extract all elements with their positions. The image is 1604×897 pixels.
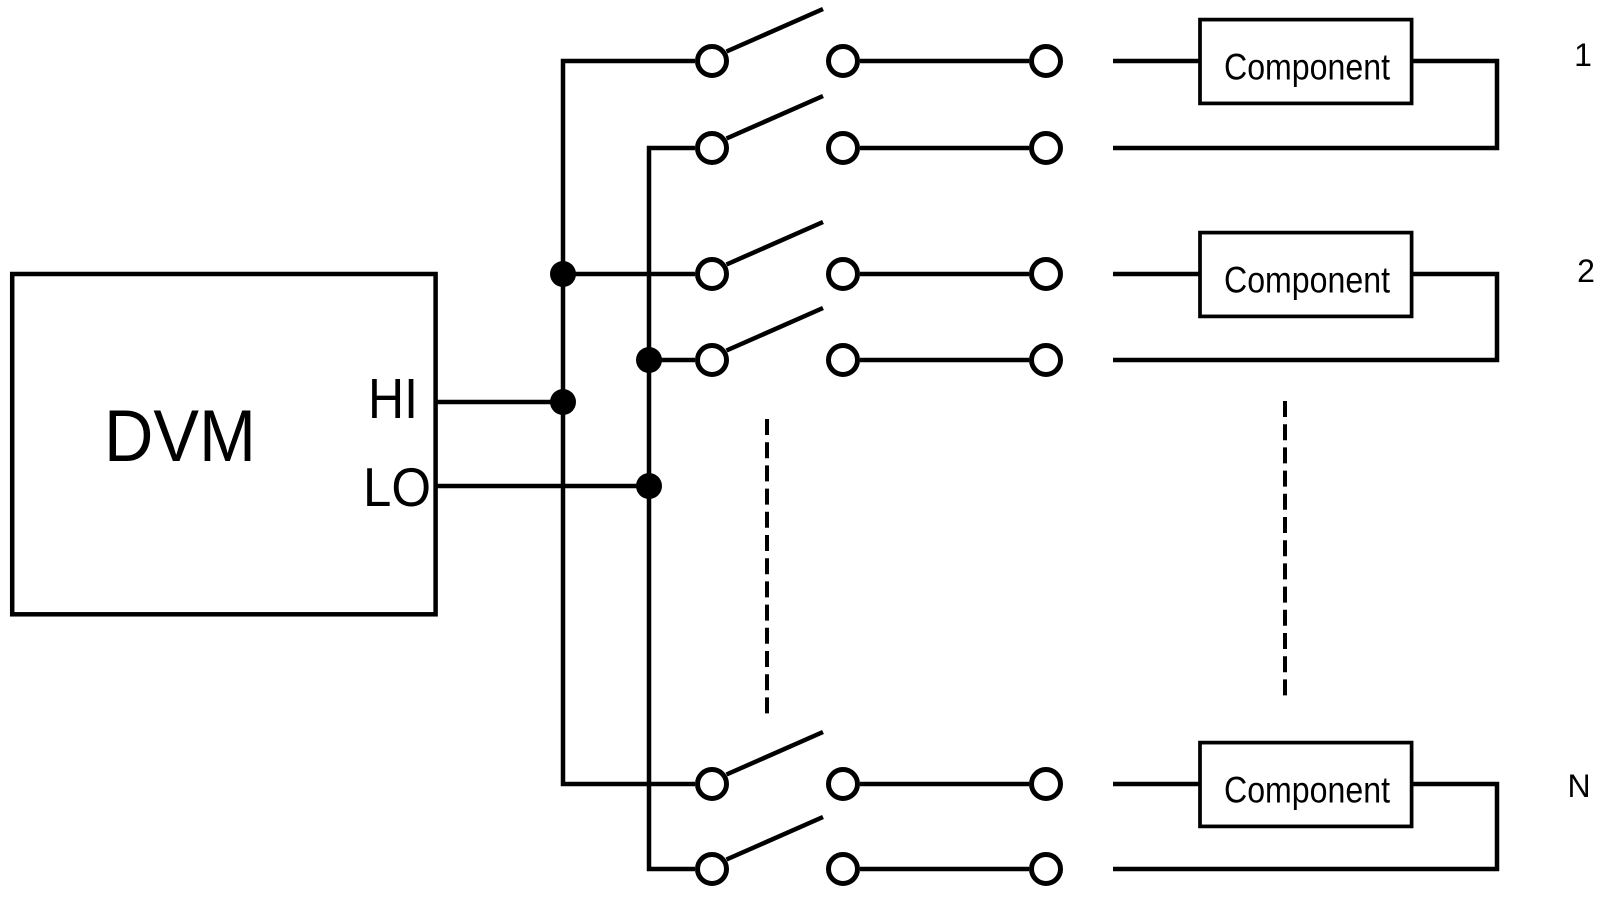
switch S1-LO lever (open) (727, 96, 824, 139)
switch SN-LO pole contact (698, 855, 727, 884)
wire to component 1 (1113, 59, 1200, 64)
wire SN-LO between contacts (860, 867, 1029, 872)
switch S2-HI lever (open) (727, 222, 824, 265)
component box 2 (1200, 233, 1412, 317)
wire DVM LO to LO bus (crosses HI bus) (436, 484, 649, 489)
LO bus vertical wire with top/bottom feed corners (649, 148, 695, 869)
svg-text:Component: Component (1224, 769, 1390, 811)
svg-text:2: 2 (1577, 253, 1595, 289)
junction dot LO bus / channel 2 LO (636, 347, 662, 373)
dashed continuation line (switch column) (765, 419, 769, 713)
terminal contact S1-HI (1032, 47, 1061, 76)
wire S2-HI between contacts (860, 272, 1029, 277)
terminal contact S2-HI (1032, 260, 1061, 289)
component box N (1200, 743, 1412, 827)
terminal contact SN-HI (1032, 770, 1061, 799)
terminal contact S1-LO (1032, 134, 1061, 163)
switch S2-LO throw contact (829, 346, 858, 375)
switch S1-HI throw contact (829, 47, 858, 76)
wire S1-LO between contacts (860, 146, 1029, 151)
switch SN-LO lever (open) (727, 817, 824, 860)
svg-text:LO: LO (363, 456, 431, 518)
wire DVM HI to HI bus (436, 400, 563, 405)
switch S2-HI throw contact (829, 260, 858, 289)
wire S2-HI feed (563, 272, 695, 277)
wire to component 2 (1113, 272, 1200, 277)
component box 1 (1200, 20, 1412, 104)
switch S1-LO throw contact (829, 134, 858, 163)
wire S1-HI between contacts (860, 59, 1029, 64)
HI bus vertical wire with top/bottom feed corners (563, 61, 695, 784)
svg-text:Component: Component (1224, 46, 1390, 88)
switch S2-LO pole contact (698, 346, 727, 375)
switch S2-LO lever (open) (727, 308, 824, 351)
wire S2-LO between contacts (860, 358, 1029, 363)
wire to component N (1113, 782, 1200, 787)
terminal contact S2-LO (1032, 346, 1061, 375)
svg-text:N: N (1567, 768, 1590, 804)
switch SN-LO throw contact (829, 855, 858, 884)
svg-text:HI: HI (368, 367, 418, 431)
wire component 2 return loop (1113, 274, 1497, 360)
junction dot HI bus / DVM HI (550, 389, 576, 415)
svg-text:Component: Component (1224, 259, 1390, 301)
wire SN-HI between contacts (860, 782, 1029, 787)
junction dot LO bus / DVM LO (636, 473, 662, 499)
svg-text:1: 1 (1574, 37, 1592, 73)
wire component N return loop (1113, 784, 1497, 869)
switch SN-HI throw contact (829, 770, 858, 799)
switch S1-HI lever (open) (727, 9, 824, 52)
switch S1-LO pole contact (698, 134, 727, 163)
junction dot HI bus / channel 2 HI (550, 261, 576, 287)
wire S2-LO feed (649, 358, 695, 363)
terminal contact SN-LO (1032, 855, 1061, 884)
switch S1-HI pole contact (698, 47, 727, 76)
switch SN-HI lever (open) (727, 732, 824, 775)
switch SN-HI pole contact (698, 770, 727, 799)
dashed continuation line (component column) (1283, 401, 1287, 695)
wire component 1 return loop (1113, 61, 1497, 148)
switch S2-HI pole contact (698, 260, 727, 289)
DVM instrument box (12, 274, 435, 614)
svg-text:DVM: DVM (104, 396, 256, 477)
